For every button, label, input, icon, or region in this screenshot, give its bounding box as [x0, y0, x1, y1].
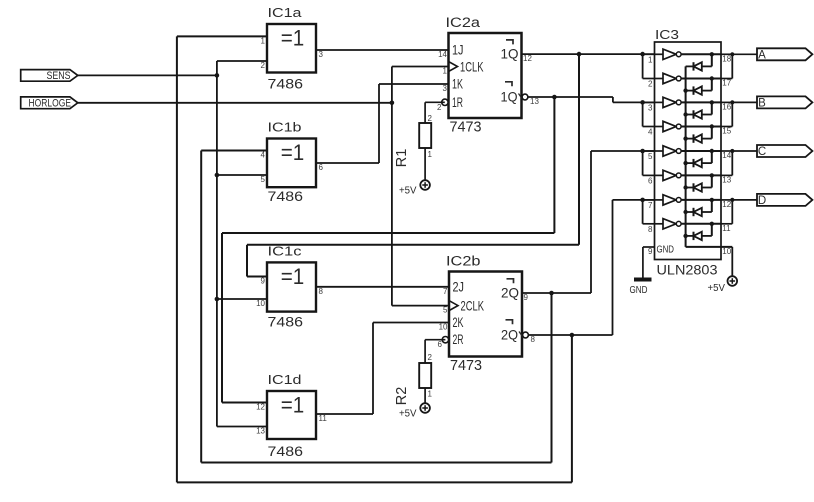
svg-text:IC1b: IC1b [268, 120, 302, 135]
svg-text:2: 2 [648, 80, 653, 89]
node 1Qbar to IC3 pins junction [640, 100, 645, 105]
node output pair junction B [730, 100, 734, 104]
node output junction row 1 [710, 52, 714, 56]
wire output stub pin 12 [721, 199, 732, 201]
node 1Qbar feedback junction [552, 95, 557, 100]
svg-text:=1: =1 [281, 393, 305, 418]
wire riser to diode 3 [711, 102, 713, 114]
wire riser to diode 8 [711, 224, 713, 236]
svg-text:11: 11 [722, 224, 731, 233]
buffer channel 5 of IC3 [655, 146, 722, 156]
output connector B [757, 96, 812, 109]
wire IC1a out pin3 to IC2a 1J [316, 49, 449, 51]
wire 1Qbar feedback riser [222, 97, 554, 403]
wire input stub pin 7 [643, 199, 655, 201]
svg-text:7486: 7486 [268, 444, 304, 459]
svg-text:2: 2 [428, 353, 433, 362]
svg-text:3: 3 [443, 84, 448, 93]
wire SENS to junction [78, 74, 217, 76]
wire to output connector A [732, 53, 757, 55]
svg-text:1CLK: 1CLK [460, 58, 484, 74]
svg-text:1R: 1R [452, 94, 463, 110]
svg-text:7486: 7486 [268, 77, 304, 92]
wire riser to diode 4 [711, 127, 713, 139]
node SENS to IC1b pin5 [215, 173, 220, 178]
svg-text:5: 5 [648, 152, 653, 161]
wire CLK riser to IC2b 2CLK [392, 305, 449, 307]
wire R1 to reset pin [425, 102, 445, 123]
svg-text:1: 1 [261, 36, 266, 45]
svg-text:8: 8 [319, 287, 324, 296]
wire 2Q riser to IC3 pin5 [591, 151, 655, 293]
svg-text:16: 16 [722, 102, 731, 111]
wire HORLOGE to junction [78, 102, 392, 104]
svg-text:8: 8 [531, 335, 536, 344]
svg-text:=1: =1 [281, 264, 305, 289]
wire R2 to +5V [424, 388, 426, 403]
node HORLOGE junction CLK riser [390, 101, 395, 106]
node output junction row 3 [710, 100, 714, 104]
svg-text:1Q: 1Q [501, 88, 518, 104]
node 2Qbar feedback junction [570, 333, 575, 338]
wire 1Q output net to IC3 pin1 [522, 53, 655, 55]
node cathode bus junction 6 [683, 185, 687, 189]
node cathode bus junction 8 [683, 234, 687, 238]
node 1Q to IC3 pins junction [640, 52, 645, 57]
node output pair junction C [730, 149, 734, 153]
svg-text:=1: =1 [281, 140, 305, 165]
wire input pair pins 7-8 [643, 200, 655, 224]
svg-text:2Q: 2Q [501, 326, 518, 342]
power +5V symbol at R1 [399, 180, 430, 196]
svg-text:13: 13 [256, 427, 265, 436]
node SENS junction on riser [215, 73, 220, 78]
node output junction row 8 [710, 222, 714, 226]
svg-text:13: 13 [530, 97, 539, 106]
svg-text:1K: 1K [452, 76, 463, 92]
reset bubble IC2a 1R [442, 99, 448, 105]
diode D3 of IC3 [686, 110, 712, 118]
svg-text:GND: GND [657, 244, 675, 256]
wire to output connector D [732, 199, 757, 201]
svg-text:1: 1 [443, 67, 448, 76]
svg-text:6: 6 [438, 340, 443, 349]
buffer channel 7 of IC3 [655, 195, 722, 205]
wire output stub pin 13 [721, 174, 732, 176]
output connector C [757, 145, 812, 158]
diode D1 of IC3 [686, 62, 712, 70]
svg-text:IC1a: IC1a [268, 5, 303, 20]
buffer channel 2 of IC3 [655, 73, 722, 83]
wire input pair pins 1-2 [643, 54, 655, 78]
svg-text:9: 9 [524, 293, 529, 302]
svg-text:10: 10 [722, 247, 731, 256]
node output junction row 2 [710, 76, 714, 80]
svg-text:ULN2803: ULN2803 [657, 263, 718, 278]
buffer channel 8 of IC3 [655, 219, 722, 229]
svg-text:7473: 7473 [450, 358, 482, 374]
XOR gate IC1b (7486) [267, 139, 316, 188]
svg-text:IC2a: IC2a [446, 15, 481, 30]
svg-text:14: 14 [438, 50, 447, 59]
wire riser to diode 6 [711, 175, 713, 187]
wire 2Qbar feedback loop to IC1a pin1 [177, 36, 572, 482]
node cathode bus junction 5 [683, 161, 687, 165]
svg-text:1Q: 1Q [501, 45, 519, 61]
svg-text:1: 1 [428, 390, 433, 399]
wire R2 to reset pin [425, 340, 445, 363]
wire CLK riser to IC2a 1CLK [392, 66, 449, 68]
wire SENS riser bottom to IC1d pin13 [217, 426, 267, 428]
wire SENS to IC1c pin10 [217, 298, 267, 300]
svg-text:3: 3 [319, 50, 324, 59]
node output pair junction A [730, 52, 734, 56]
node 2Qbar to IC3 pins junction [640, 198, 645, 203]
svg-text:A: A [758, 50, 766, 62]
svg-text:12: 12 [256, 403, 265, 412]
svg-text:7486: 7486 [268, 189, 304, 204]
wire input stub pin 1 [643, 53, 655, 55]
wire CLK riser vertical [391, 67, 393, 306]
wire 1Qbar output net with jog to IC3 pin3 [528, 97, 654, 102]
svg-text:2: 2 [428, 114, 433, 123]
wire 2Qbar output net [528, 334, 613, 336]
svg-text:IC1d: IC1d [268, 372, 302, 387]
XOR gate IC1c (7486) [267, 262, 316, 311]
output bubble IC2b 2Qbar [523, 332, 529, 338]
buffer channel 3 of IC3 [655, 97, 722, 107]
wire input pair pins 3-4 [643, 102, 655, 126]
output bubble IC2a 1Qbar [522, 94, 528, 100]
svg-text:R1: R1 [394, 149, 410, 168]
resistor R1 [419, 123, 431, 148]
node SENS to IC1c pin10 [215, 297, 220, 302]
node cathode bus junction 3 [683, 112, 687, 116]
wire 2Qbar riser to IC3 pin7 [613, 200, 655, 335]
wire diode cathode bus [685, 66, 687, 247]
wire output pair pins 16-15 [731, 102, 733, 126]
output connector D [757, 194, 812, 207]
svg-text:10: 10 [439, 323, 448, 332]
wire SENS riser vertical [216, 61, 218, 427]
svg-text:2R: 2R [453, 331, 464, 347]
node cathode bus junction 2 [683, 88, 687, 92]
XOR gate IC1a (7486) [267, 24, 316, 73]
resistor R2 [419, 363, 431, 388]
svg-text:5: 5 [443, 306, 448, 315]
wire output stub pin 17 [721, 78, 732, 80]
node cathode bus junction 4 [683, 136, 687, 140]
JK flip-flop IC2a (7473) [449, 33, 524, 118]
node 2Q feedback junction [549, 291, 554, 296]
svg-text:14: 14 [722, 151, 731, 160]
input connector HORLOGE [21, 97, 78, 109]
wire to output connector B [732, 101, 757, 103]
JK flip-flop IC2b (7473) [449, 272, 524, 357]
diode D2 of IC3 [686, 86, 712, 94]
node output junction row 4 [710, 124, 714, 128]
svg-text:HORLOGE: HORLOGE [29, 97, 72, 109]
svg-text:D: D [758, 195, 766, 207]
svg-text:4: 4 [648, 128, 653, 137]
diode D6 of IC3 [686, 183, 712, 191]
svg-text:7: 7 [443, 287, 448, 296]
svg-text:18: 18 [722, 54, 731, 63]
diode D7 of IC3 [686, 208, 712, 216]
svg-text:B: B [758, 98, 766, 110]
node output junction row 7 [710, 198, 714, 202]
svg-text:+5V: +5V [708, 283, 726, 294]
wire to output connector C [732, 150, 757, 152]
svg-text:2: 2 [261, 61, 266, 70]
wire SENS riser top to IC1a pin2 [217, 60, 267, 62]
svg-text:7473: 7473 [450, 120, 482, 136]
wire input stub pin 3 [643, 101, 655, 103]
svg-text:15: 15 [722, 127, 731, 136]
svg-text:12: 12 [523, 54, 532, 63]
svg-text:+5V: +5V [399, 186, 417, 197]
output connector A [757, 48, 812, 61]
wire common bus to pin10 [686, 247, 733, 276]
wire R1 to +5V [424, 148, 426, 180]
buffer channel 4 of IC3 [655, 121, 722, 131]
wire output stub pin 14 [721, 150, 732, 152]
svg-text:9: 9 [648, 247, 653, 256]
power +5V symbol at R2 [399, 403, 430, 419]
node 1Q feedback junction [577, 52, 582, 57]
svg-text:+5V: +5V [399, 409, 417, 420]
power +5V symbol at IC3 pin10 [708, 276, 738, 294]
wire input pair pins 5-6 [643, 151, 655, 175]
wire riser to diode 5 [711, 151, 713, 163]
svg-text:6: 6 [319, 163, 324, 172]
svg-text:5: 5 [261, 175, 266, 184]
reset bubble IC2b 2R [442, 337, 448, 343]
svg-text:1: 1 [428, 150, 433, 159]
wire output stub pin 15 [721, 126, 732, 128]
svg-text:2J: 2J [453, 278, 465, 294]
driver IC3 ULN2803 body [655, 42, 722, 260]
diode D5 of IC3 [686, 159, 712, 167]
wire riser to diode 1 [711, 54, 713, 66]
wire 2Q output net [522, 292, 591, 294]
wire 1Q feedback riser [247, 54, 579, 276]
wire output pair pins 12-11 [731, 200, 733, 224]
node 2Q to IC3 pins junction [640, 149, 645, 154]
wire IC1c out pin8 to IC2b 2J [316, 286, 449, 288]
buffer channel 6 of IC3 [655, 170, 722, 180]
svg-text:9: 9 [261, 277, 266, 286]
svg-text:3: 3 [648, 103, 653, 112]
diode D4 of IC3 [686, 134, 712, 142]
svg-text:12: 12 [722, 200, 731, 209]
buffer channel 1 of IC3 [655, 49, 722, 59]
svg-text:7: 7 [648, 201, 653, 210]
svg-text:IC2b: IC2b [446, 254, 481, 269]
svg-text:17: 17 [722, 79, 731, 88]
XOR gate IC1d (7486) [267, 391, 316, 439]
svg-text:7486: 7486 [268, 315, 304, 330]
wire output pair pins 14-13 [731, 151, 733, 175]
svg-text:1: 1 [648, 55, 653, 64]
ground symbol [630, 280, 652, 297]
wire IC3 pin9 to ground [643, 247, 655, 278]
diode D8 of IC3 [686, 232, 712, 240]
svg-text:C: C [758, 146, 766, 158]
wire output pair pins 18-17 [731, 54, 733, 78]
wire IC1d out pin11 to IC2b 2K (L path) [316, 323, 449, 415]
svg-text:2K: 2K [453, 314, 464, 330]
wire output stub pin 16 [721, 101, 732, 103]
svg-text:R2: R2 [394, 387, 410, 406]
svg-text:2CLK: 2CLK [461, 297, 485, 313]
node cathode bus junction 7 [683, 210, 687, 214]
svg-text:2: 2 [437, 103, 442, 112]
wire riser to diode 7 [711, 200, 713, 212]
svg-text:1J: 1J [452, 42, 464, 58]
wire SENS to IC1b pin5 [217, 174, 268, 176]
wire riser to diode 2 [711, 79, 713, 91]
wire input stub pin 5 [643, 150, 655, 152]
svg-text:2Q: 2Q [501, 284, 519, 300]
svg-text:13: 13 [722, 175, 731, 184]
node output junction row 6 [710, 173, 714, 177]
wire output stub pin 11 [721, 223, 732, 225]
svg-text:SENS: SENS [47, 70, 71, 82]
wire 2Q feedback loop to IC1b pin4 [201, 151, 551, 463]
wire IC1b out pin6 to IC2a 1K (L path) [316, 84, 449, 163]
svg-text:11: 11 [319, 414, 328, 423]
svg-text:4: 4 [261, 151, 266, 160]
svg-text:=1: =1 [281, 26, 305, 51]
svg-text:10: 10 [256, 299, 265, 308]
svg-text:IC3: IC3 [655, 27, 679, 42]
input connector SENS [21, 70, 78, 82]
node output pair junction D [730, 198, 734, 202]
svg-text:8: 8 [648, 225, 653, 234]
svg-text:6: 6 [648, 176, 653, 185]
node output junction row 5 [710, 149, 714, 153]
wire output stub pin 18 [721, 53, 732, 55]
svg-text:GND: GND [630, 285, 648, 296]
